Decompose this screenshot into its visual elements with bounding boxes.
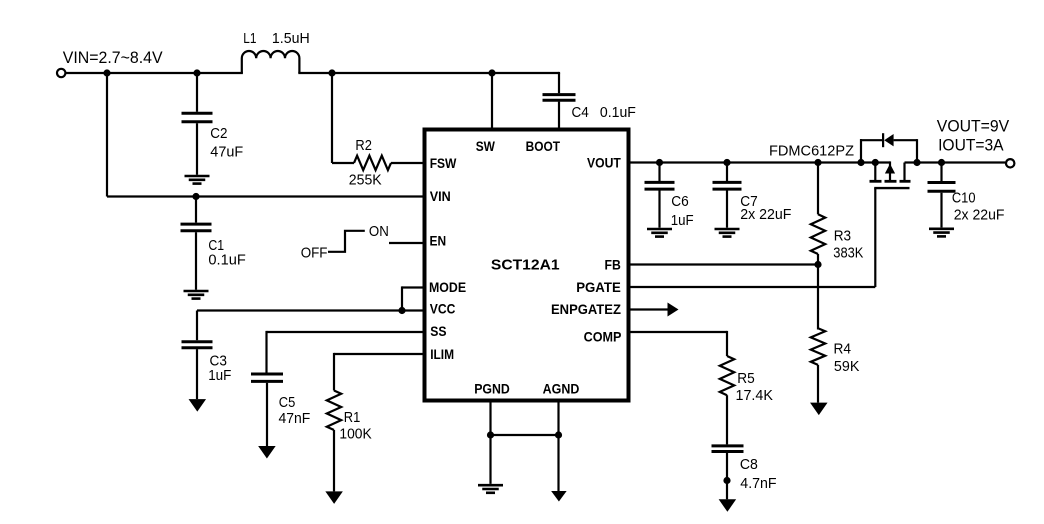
svg-text:FB: FB	[605, 256, 621, 272]
pin label AGND	[543, 380, 580, 396]
node C2 junction	[193, 69, 200, 76]
wire R2 right lead to FSW pin	[391, 162, 424, 164]
ground C7	[715, 229, 740, 237]
svg-text:C8: C8	[740, 457, 758, 473]
svg-text:1.5uH: 1.5uH	[272, 31, 310, 47]
ground AGND arrow	[551, 491, 567, 502]
label 47nF	[279, 411, 311, 427]
ground R1 arrow	[325, 491, 343, 504]
pin label PGND	[474, 380, 510, 396]
label C10	[952, 191, 976, 207]
svg-text:MODE: MODE	[429, 279, 466, 295]
wire C7 top lead	[726, 163, 728, 182]
node C8 bottom dot	[723, 477, 730, 484]
svg-text:VCC: VCC	[430, 301, 456, 317]
svg-text:0.1uF: 0.1uF	[600, 105, 636, 121]
pin label PGATE	[576, 279, 621, 295]
node SW junction	[488, 69, 495, 76]
svg-text:L1: L1	[243, 31, 256, 47]
ground C5 arrow	[258, 446, 276, 459]
label R2	[355, 138, 372, 154]
node MODE-VCC junction	[398, 307, 405, 314]
wire VOUT rail right	[905, 161, 1006, 163]
svg-text:R5: R5	[737, 371, 755, 387]
svg-text:255K: 255K	[349, 172, 382, 188]
label FDMC612PZ	[769, 144, 854, 160]
label C5	[279, 395, 296, 411]
svg-text:SS: SS	[430, 323, 446, 339]
label 383K	[833, 246, 863, 262]
capacitor C6	[645, 182, 675, 189]
wire Q1 right stub	[903, 163, 905, 181]
node Q1 left terminal	[872, 159, 879, 166]
node AGND junction	[555, 431, 562, 438]
capacitor C2	[182, 113, 213, 122]
wire COMP horizontal	[629, 331, 727, 333]
label C4	[572, 105, 589, 121]
wire R5 top lead	[726, 331, 728, 356]
svg-text:FDMC612PZ: FDMC612PZ	[769, 144, 854, 160]
svg-text:383K: 383K	[833, 246, 863, 262]
svg-text:R4: R4	[834, 341, 852, 357]
svg-text:2x 22uF: 2x 22uF	[740, 207, 791, 223]
wire diode right leg	[894, 139, 917, 162]
wire ENPGATEZ stub	[629, 308, 669, 310]
wire PGND stub	[489, 400, 491, 484]
svg-text:17.4K: 17.4K	[736, 388, 774, 404]
capacitor C7	[713, 182, 742, 189]
wire R3 top lead	[817, 163, 819, 215]
wire VOUT rail left	[629, 161, 890, 163]
wire C2 bottom lead	[196, 123, 198, 175]
svg-text:SW: SW	[476, 138, 496, 154]
label C6	[671, 194, 689, 210]
ground C10	[929, 229, 954, 237]
wire R3 bottom lead	[817, 254, 819, 265]
svg-text:PGND: PGND	[474, 380, 510, 396]
node diode left junction	[857, 159, 864, 166]
svg-text:4.7nF: 4.7nF	[740, 476, 776, 492]
svg-text:SCT12A1: SCT12A1	[491, 257, 560, 274]
arrow Q1 body	[885, 164, 895, 174]
svg-text:COMP: COMP	[584, 329, 622, 345]
node R3 junction	[814, 159, 821, 166]
capacitor C8	[712, 446, 744, 452]
label R3	[834, 229, 851, 245]
capacitor C3	[182, 342, 213, 348]
svg-text:BOOT: BOOT	[526, 138, 561, 154]
transistor Q1 gate bar	[874, 187, 909, 189]
label 1uF C3	[208, 368, 231, 384]
svg-text:47nF: 47nF	[279, 411, 311, 427]
node PGND junction	[487, 431, 494, 438]
svg-text:47uF: 47uF	[210, 144, 243, 160]
pin label VIN	[430, 188, 451, 204]
wire C4 bottom lead to BOOT pin	[558, 102, 560, 130]
wire C10 bottom lead	[940, 193, 942, 228]
inductor L1	[242, 51, 300, 73]
svg-text:ON: ON	[369, 224, 389, 240]
ground PGND	[478, 485, 503, 493]
output terminal VOUT	[1006, 159, 1014, 167]
ground C2	[185, 176, 210, 184]
label 0.1uF C1	[208, 252, 246, 268]
svg-text:PGATE: PGATE	[576, 279, 621, 295]
label L1	[243, 31, 256, 47]
wire diode left leg	[860, 139, 882, 162]
label R5	[737, 371, 755, 387]
wire C1 top lead	[195, 197, 197, 223]
resistor R1	[327, 391, 341, 431]
input terminal VIN	[57, 69, 65, 77]
wire AGND stub	[557, 400, 559, 491]
svg-text:VIN: VIN	[430, 188, 451, 204]
node top rail VIN drop	[103, 69, 110, 76]
svg-text:ILIM: ILIM	[430, 346, 454, 362]
wire R4 bottom lead	[817, 365, 819, 403]
svg-text:100K: 100K	[339, 427, 372, 443]
svg-text:FSW: FSW	[430, 155, 457, 171]
wire MODE bracket	[402, 286, 424, 310]
ground C6	[647, 229, 672, 237]
svg-text:R2: R2	[355, 138, 372, 154]
wire VCC horizontal	[197, 309, 424, 311]
wire C10 top lead	[940, 163, 942, 182]
label C3	[210, 354, 227, 370]
arrow ENPGATEZ	[668, 303, 679, 317]
wire EN stub	[389, 242, 424, 244]
wire FB horizontal	[629, 263, 818, 265]
pin label MODE	[429, 279, 466, 295]
wire C1 bottom lead	[195, 232, 197, 290]
wire rail VIN to L1	[66, 72, 243, 74]
svg-text:0.1uF: 0.1uF	[208, 252, 246, 268]
ground R4 arrow	[810, 403, 828, 416]
wire C4 top lead	[558, 73, 560, 93]
svg-text:59K: 59K	[834, 359, 860, 375]
svg-text:VOUT=9V: VOUT=9V	[937, 117, 1009, 135]
pin label SS	[430, 323, 446, 339]
node C7 junction	[723, 159, 730, 166]
node R2 junction top rail	[328, 69, 335, 76]
capacitor C10	[928, 183, 956, 192]
wire PGATE vertical to gate	[874, 188, 876, 287]
wire C6 bottom lead	[658, 190, 660, 227]
resistor R4	[811, 328, 825, 365]
svg-text:IOUT=3A: IOUT=3A	[938, 137, 1004, 155]
svg-text:ENPGATEZ: ENPGATEZ	[551, 301, 621, 317]
label 1uF C6	[671, 213, 694, 229]
label C7	[740, 194, 758, 210]
wire C6 top lead	[658, 163, 660, 182]
diode D1 cathode bar	[882, 133, 884, 147]
ground C1	[184, 291, 209, 299]
node FB junction	[814, 261, 821, 268]
pin label FSW	[430, 155, 457, 171]
wire SS horizontal	[267, 331, 425, 333]
svg-text:VOUT: VOUT	[587, 154, 621, 170]
ground C3 arrow	[189, 399, 207, 412]
label 255K	[349, 172, 382, 188]
label 4.7nF	[740, 476, 776, 492]
svg-text:C1: C1	[208, 238, 224, 254]
capacitor C5	[251, 374, 283, 381]
wire C3 bottom lead	[196, 349, 198, 399]
label VIN=2.7~8.4V	[63, 49, 163, 67]
label IOUT=3A	[938, 137, 1004, 155]
label C8	[740, 457, 758, 473]
ground C8 arrow	[719, 499, 737, 512]
svg-text:R1: R1	[344, 410, 361, 426]
resistor R5	[720, 356, 734, 395]
svg-text:C2: C2	[210, 126, 227, 142]
label C1	[208, 238, 224, 254]
pin label ENPGATEZ	[551, 301, 621, 317]
label VOUT=9V	[937, 117, 1009, 135]
wire VIN drop vertical	[106, 72, 108, 197]
wire C8 bottom lead	[726, 453, 728, 499]
wire C5 top lead	[265, 331, 267, 373]
label 0.1uF C4	[600, 105, 636, 121]
wire PGATE horizontal	[629, 286, 875, 288]
capacitor C4	[543, 95, 576, 101]
op-amp U1 SCT12A1 body	[425, 130, 629, 401]
wire ILIM horizontal	[334, 353, 424, 355]
svg-text:C10: C10	[952, 191, 976, 207]
label 47uF	[210, 144, 243, 160]
label ON	[369, 224, 389, 240]
label 2x 22uF C7	[740, 207, 791, 223]
resistor R2	[354, 156, 391, 170]
wire C5 bottom lead	[266, 383, 268, 446]
label 59K	[834, 359, 860, 375]
label 17.4K	[736, 388, 774, 404]
pin label VOUT	[587, 154, 621, 170]
label OFF	[301, 246, 328, 262]
wire SW stub	[491, 72, 493, 130]
pin label FB	[605, 256, 621, 272]
svg-text:R3: R3	[834, 229, 851, 245]
node C6 junction	[656, 159, 663, 166]
wire R4 top lead	[817, 265, 819, 330]
wire R1 top lead	[333, 353, 335, 391]
wire Q1 body line	[889, 161, 891, 180]
wire C3 top lead	[196, 311, 198, 341]
diode D1 triangle	[884, 134, 893, 146]
wire R2 drop vertical	[331, 72, 333, 163]
svg-text:VIN=2.7~8.4V: VIN=2.7~8.4V	[63, 49, 163, 67]
wire Q1 left stub	[874, 163, 876, 181]
svg-text:1uF: 1uF	[671, 213, 694, 229]
transistor Q1 channel segments	[870, 180, 911, 183]
resistor R3	[811, 214, 825, 254]
pin label ILIM	[430, 346, 454, 362]
node C1 junction	[192, 193, 199, 200]
wire C2 top lead	[196, 73, 198, 112]
capacitor C1	[181, 224, 212, 231]
wire R5 to C8	[726, 395, 728, 444]
pin label EN	[430, 233, 447, 249]
node C10 junction	[938, 159, 945, 166]
svg-text:C6: C6	[671, 194, 689, 210]
svg-text:EN: EN	[430, 233, 447, 249]
wire R1 bottom lead	[333, 430, 335, 491]
label 100K	[339, 427, 372, 443]
label C2	[210, 126, 227, 142]
wire PGND-AGND link	[491, 434, 559, 436]
pin label SW	[476, 138, 496, 154]
label R1	[344, 410, 361, 426]
svg-text:1uF: 1uF	[208, 368, 231, 384]
wire logic level step	[328, 231, 365, 252]
wire C7 bottom lead	[726, 190, 728, 227]
svg-text:C4: C4	[572, 105, 589, 121]
label R4	[834, 341, 852, 357]
wire R2 left lead	[332, 162, 354, 164]
wire rail L1 to C4	[298, 72, 559, 74]
node diode right junction	[913, 159, 920, 166]
svg-text:2x 22uF: 2x 22uF	[954, 208, 1005, 224]
wire VIN horizontal to IC	[107, 195, 424, 197]
svg-text:OFF: OFF	[301, 246, 328, 262]
svg-text:C5: C5	[279, 395, 296, 411]
label SCT12A1	[491, 257, 560, 274]
label 2x 22uF C10	[954, 208, 1005, 224]
pin label BOOT	[526, 138, 561, 154]
pin label COMP	[584, 329, 622, 345]
label 1.5uH	[272, 31, 310, 47]
pin label VCC	[430, 301, 456, 317]
svg-text:AGND: AGND	[543, 380, 580, 396]
